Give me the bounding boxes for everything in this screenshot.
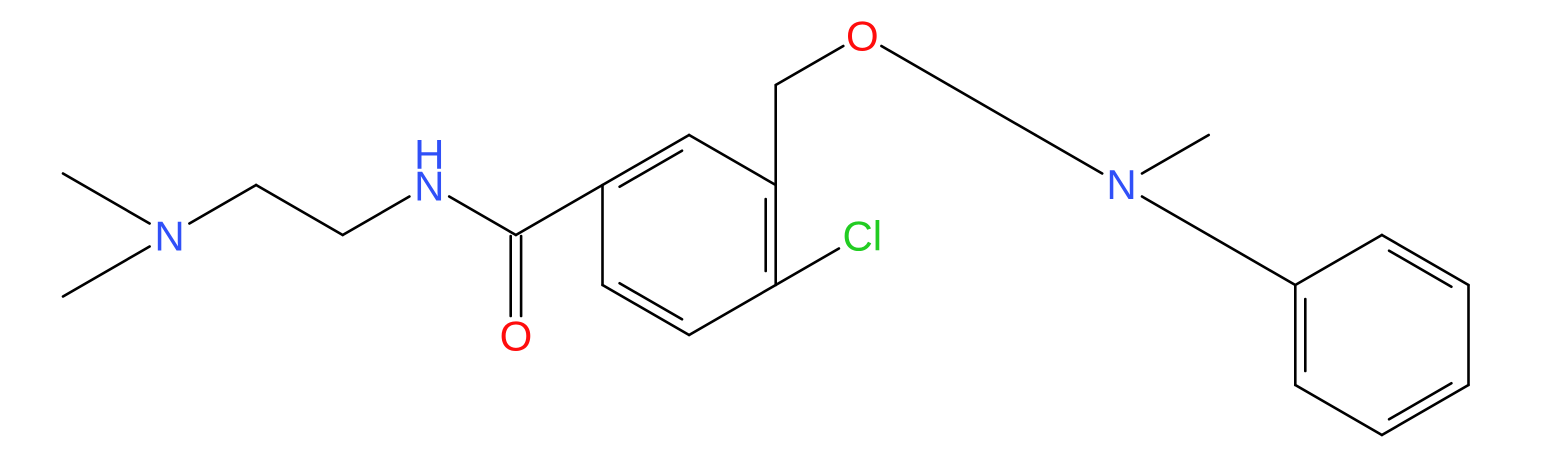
benzene ring1 edge v2-v3 [689,135,776,185]
phenyl ring2 edge F-A [1294,285,1297,385]
phenyl ring2 edge D-E [1382,385,1469,435]
bond CH2-NH [343,197,410,236]
bond CH3-N (methyl 2) [63,247,150,297]
benzene ring1 edge v1-v2 [603,135,690,185]
bond CH3-N (methyl 1) [63,174,150,224]
svg-text:Cl: Cl [842,212,882,259]
benzene ring1 inner double v1-v2 [620,151,682,187]
bond N-CH2 (benzyl) [1142,197,1209,236]
bond CH2-O [776,46,844,85]
benzene ring1 edge v5-v6 [603,285,690,335]
phenyl ring2 inner double F-A [1304,299,1307,371]
svg-text:N: N [414,162,444,209]
bond ring-CH2 [774,85,777,185]
bond N-CH3 (right methyl) [1142,135,1209,174]
svg-text:N: N [154,212,184,259]
phenyl ring2 edge C-D [1467,285,1470,385]
bond C(=O)-ring [516,185,603,235]
bond CH2-CH2 [256,185,343,235]
benzene ring1 inner double v5-v6 [620,283,682,319]
svg-text:O: O [846,12,879,59]
bond ring-Cl [776,249,839,286]
benzene ring1 inner double v3-v4 [764,199,767,271]
double bond C=O carbonyl [509,236,512,316]
svg-text:N: N [1106,161,1136,208]
bond CH2-CH2 (right chain) [949,85,1036,135]
bond O-CH2 [881,46,949,85]
phenyl ring2 edge E-F [1295,385,1382,435]
svg-text:O: O [500,312,533,359]
benzene ring1 edge v4-v5 [689,285,776,335]
bond CH2-N (right) [1036,135,1103,174]
bond CH2-phenyl [1209,235,1296,285]
benzene ring1 edge v3-v4 [774,185,777,285]
phenyl ring2 edge A-B [1295,235,1382,285]
bond NH-C(=O) [449,197,516,236]
phenyl ring2 edge B-C [1382,235,1469,285]
benzene ring1 edge v6-v1 [601,185,604,285]
phenyl ring2 inner double B-C [1389,251,1451,287]
bond N-CH2 [189,185,256,224]
phenyl ring2 inner double D-E [1389,383,1451,419]
